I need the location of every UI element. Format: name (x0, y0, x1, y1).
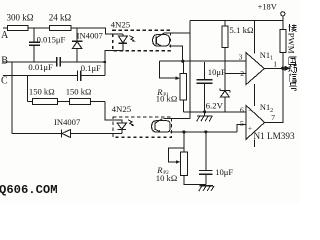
value label 5.1 kOhm (229, 25, 254, 35)
svg-text:PWM: PWM (287, 33, 297, 54)
power stub mid (254, 84, 256, 106)
label RP2 (156, 165, 169, 176)
potentiometer RP2 (182, 130, 185, 133)
resistor 150k second (70, 99, 91, 105)
node junction B-ext (104, 61, 107, 64)
svg-text:N12: N12 (260, 103, 273, 114)
+18V terminal (281, 12, 285, 16)
capacitor 0.015uF (33, 28, 35, 42)
char qu (drive) (289, 57, 297, 64)
value label 0.1uF (81, 63, 101, 73)
char jie (receive) (289, 24, 297, 32)
power stub V+ (254, 20, 256, 53)
svg-text:Q606.COM: Q606.COM (0, 183, 58, 197)
resistor 150k first (32, 99, 57, 105)
potentiometer RP1 (181, 60, 184, 63)
svg-text:IN4007: IN4007 (54, 117, 81, 127)
svg-text:4N25: 4N25 (111, 19, 131, 29)
wire C (3, 74, 77, 76)
wire +18V drop to optocoupler collectors (189, 20, 191, 118)
svg-text:10μF: 10μF (208, 67, 226, 77)
wire (LED1 return riser x=104.8) (105, 44, 123, 76)
capacitor 0.01uF (series in wire B) (57, 57, 61, 66)
wire B (3, 61, 56, 63)
label IN4007 second (54, 117, 81, 127)
inverting input sign (248, 106, 252, 114)
pin 6 label (240, 105, 244, 114)
light arrow of 4N25 first (129, 36, 134, 42)
zener diode 6.2V (220, 88, 230, 92)
+18V rail (190, 19, 283, 21)
svg-text:C: C (1, 75, 8, 86)
resistor R 300k (8, 25, 28, 30)
pin 3 label (239, 53, 243, 62)
label 4N25 first (111, 19, 131, 29)
wire (riser down to LED2 anode) (105, 102, 122, 124)
vertical label: PWM drive signal (rotated, CJK drawn as strokes) (289, 24, 297, 91)
value label 150 kOhm first (29, 86, 55, 96)
value label 0.015uF (37, 35, 66, 45)
node A label (1, 30, 9, 41)
wire return (lower) with IN4007 second (12, 133, 61, 135)
svg-text:1: 1 (273, 59, 277, 68)
svg-text:0.01μF: 0.01μF (28, 62, 53, 72)
svg-text:+18V: +18V (258, 3, 277, 12)
label N1:1 (260, 51, 273, 62)
phototransistor of 4N25 first (153, 35, 170, 47)
value label 10 kOhm RP1 (156, 93, 177, 103)
svg-text:150 kΩ: 150 kΩ (29, 86, 55, 96)
wire pin2 reference tap (225, 73, 246, 75)
svg-text:+: + (248, 125, 252, 133)
capacitor 10uF second (204, 130, 207, 133)
wire 150k row (28, 101, 106, 103)
svg-text:N11: N11 (260, 51, 273, 62)
svg-text:0.015μF: 0.015μF (37, 35, 66, 45)
pin 1 label (273, 59, 277, 68)
wire (left riser from B down to lower return) (11, 62, 13, 134)
non-inverting input sign (248, 125, 252, 133)
label N1 LM393 (254, 131, 295, 141)
value label 0.01uF (28, 62, 53, 72)
watermark Q606.COM (0, 183, 58, 197)
value label 300 kOhm (7, 13, 34, 23)
LED of 4N25 first (122, 34, 124, 36)
svg-text:IN4007: IN4007 (77, 31, 104, 41)
power stub low (254, 139, 256, 147)
svg-text:4N25: 4N25 (112, 104, 132, 114)
value label 24 kOhm (49, 13, 72, 23)
ground symbol (main) (203, 110, 206, 113)
label IN4007 first (77, 31, 104, 41)
value label 10uF first (208, 67, 226, 77)
phototransistor of 4N25 second (152, 121, 170, 132)
arrow output to PWM (283, 67, 285, 69)
diode IN4007 second (horizontal, cathode left) (61, 129, 63, 137)
value label 6.2V (206, 101, 224, 111)
resistor 24k (50, 25, 72, 30)
pin 2 label (240, 69, 244, 78)
svg-text:N1 LM393: N1 LM393 (254, 131, 295, 141)
ground wire / pin6 wire (183, 111, 246, 113)
ground symbol (bottom) (199, 185, 213, 187)
resistor pull-up (right) (280, 30, 286, 53)
op-amp N1:1 (LM393 first) (246, 53, 264, 85)
wire output2 up to pull-up (265, 53, 283, 123)
wire emitter1 to pin3 node (169, 46, 183, 60)
svg-text:5: 5 (240, 119, 244, 128)
wire collector2 link to +18V drop (164, 118, 190, 120)
wire A (phase A line) (3, 28, 123, 34)
label N1:2 (260, 103, 273, 114)
svg-text:6: 6 (240, 105, 244, 114)
label RP1 (156, 87, 169, 98)
wire output1 (264, 67, 283, 69)
svg-text:10 kΩ: 10 kΩ (156, 93, 177, 103)
svg-text:A: A (1, 30, 9, 41)
optocoupler 4N25 first : dashed box (113, 30, 171, 51)
capacitor 10uF first (204, 62, 206, 79)
svg-text:5.1 kΩ: 5.1 kΩ (229, 25, 254, 35)
label 4N25 second (112, 104, 132, 114)
pin 5 label (240, 119, 244, 128)
pin 7 label (271, 113, 275, 122)
diode IN4007 first (vertical, cathode up to wire A) (76, 28, 78, 41)
optocoupler 4N25 second : dashed box (113, 117, 172, 137)
resistor 5.1k (224, 20, 226, 26)
light arrow of 4N25 second (128, 120, 133, 126)
svg-text:300 kΩ: 300 kΩ (7, 13, 34, 23)
char xin (letter/signal) (290, 74, 297, 82)
svg-text:2: 2 (240, 69, 244, 78)
svg-text:150 kΩ: 150 kΩ (66, 87, 92, 97)
char hao (number) (289, 83, 297, 91)
wire collector1 to +18V drop (164, 32, 189, 34)
svg-text:0.1μF: 0.1μF (81, 63, 101, 73)
svg-text:B: B (1, 56, 8, 67)
LED of 4N25 second (117, 123, 126, 129)
svg-text:7: 7 (271, 113, 275, 122)
svg-text:24 kΩ: 24 kΩ (49, 13, 72, 23)
char dong (move) (289, 65, 297, 72)
value label 10 kOhm RP2 (156, 173, 177, 183)
wire pin3 node (159, 60, 246, 62)
svg-text:10μF: 10μF (215, 167, 233, 177)
wire (riser C to 150k row) (27, 75, 29, 101)
svg-text:−: − (248, 106, 252, 114)
label +18V (258, 3, 277, 12)
svg-text:3: 3 (239, 53, 243, 62)
value label 150 kOhm second (66, 87, 92, 97)
svg-text:6.2V: 6.2V (206, 101, 224, 111)
capacitor 0.1uF (series in wire C) (77, 71, 80, 81)
wire emitter2 to pin5 (170, 124, 246, 132)
op-amp N1:2 (LM393 second) (246, 106, 264, 140)
svg-text:10 kΩ: 10 kΩ (156, 173, 177, 183)
value label 10uF second (215, 167, 233, 177)
